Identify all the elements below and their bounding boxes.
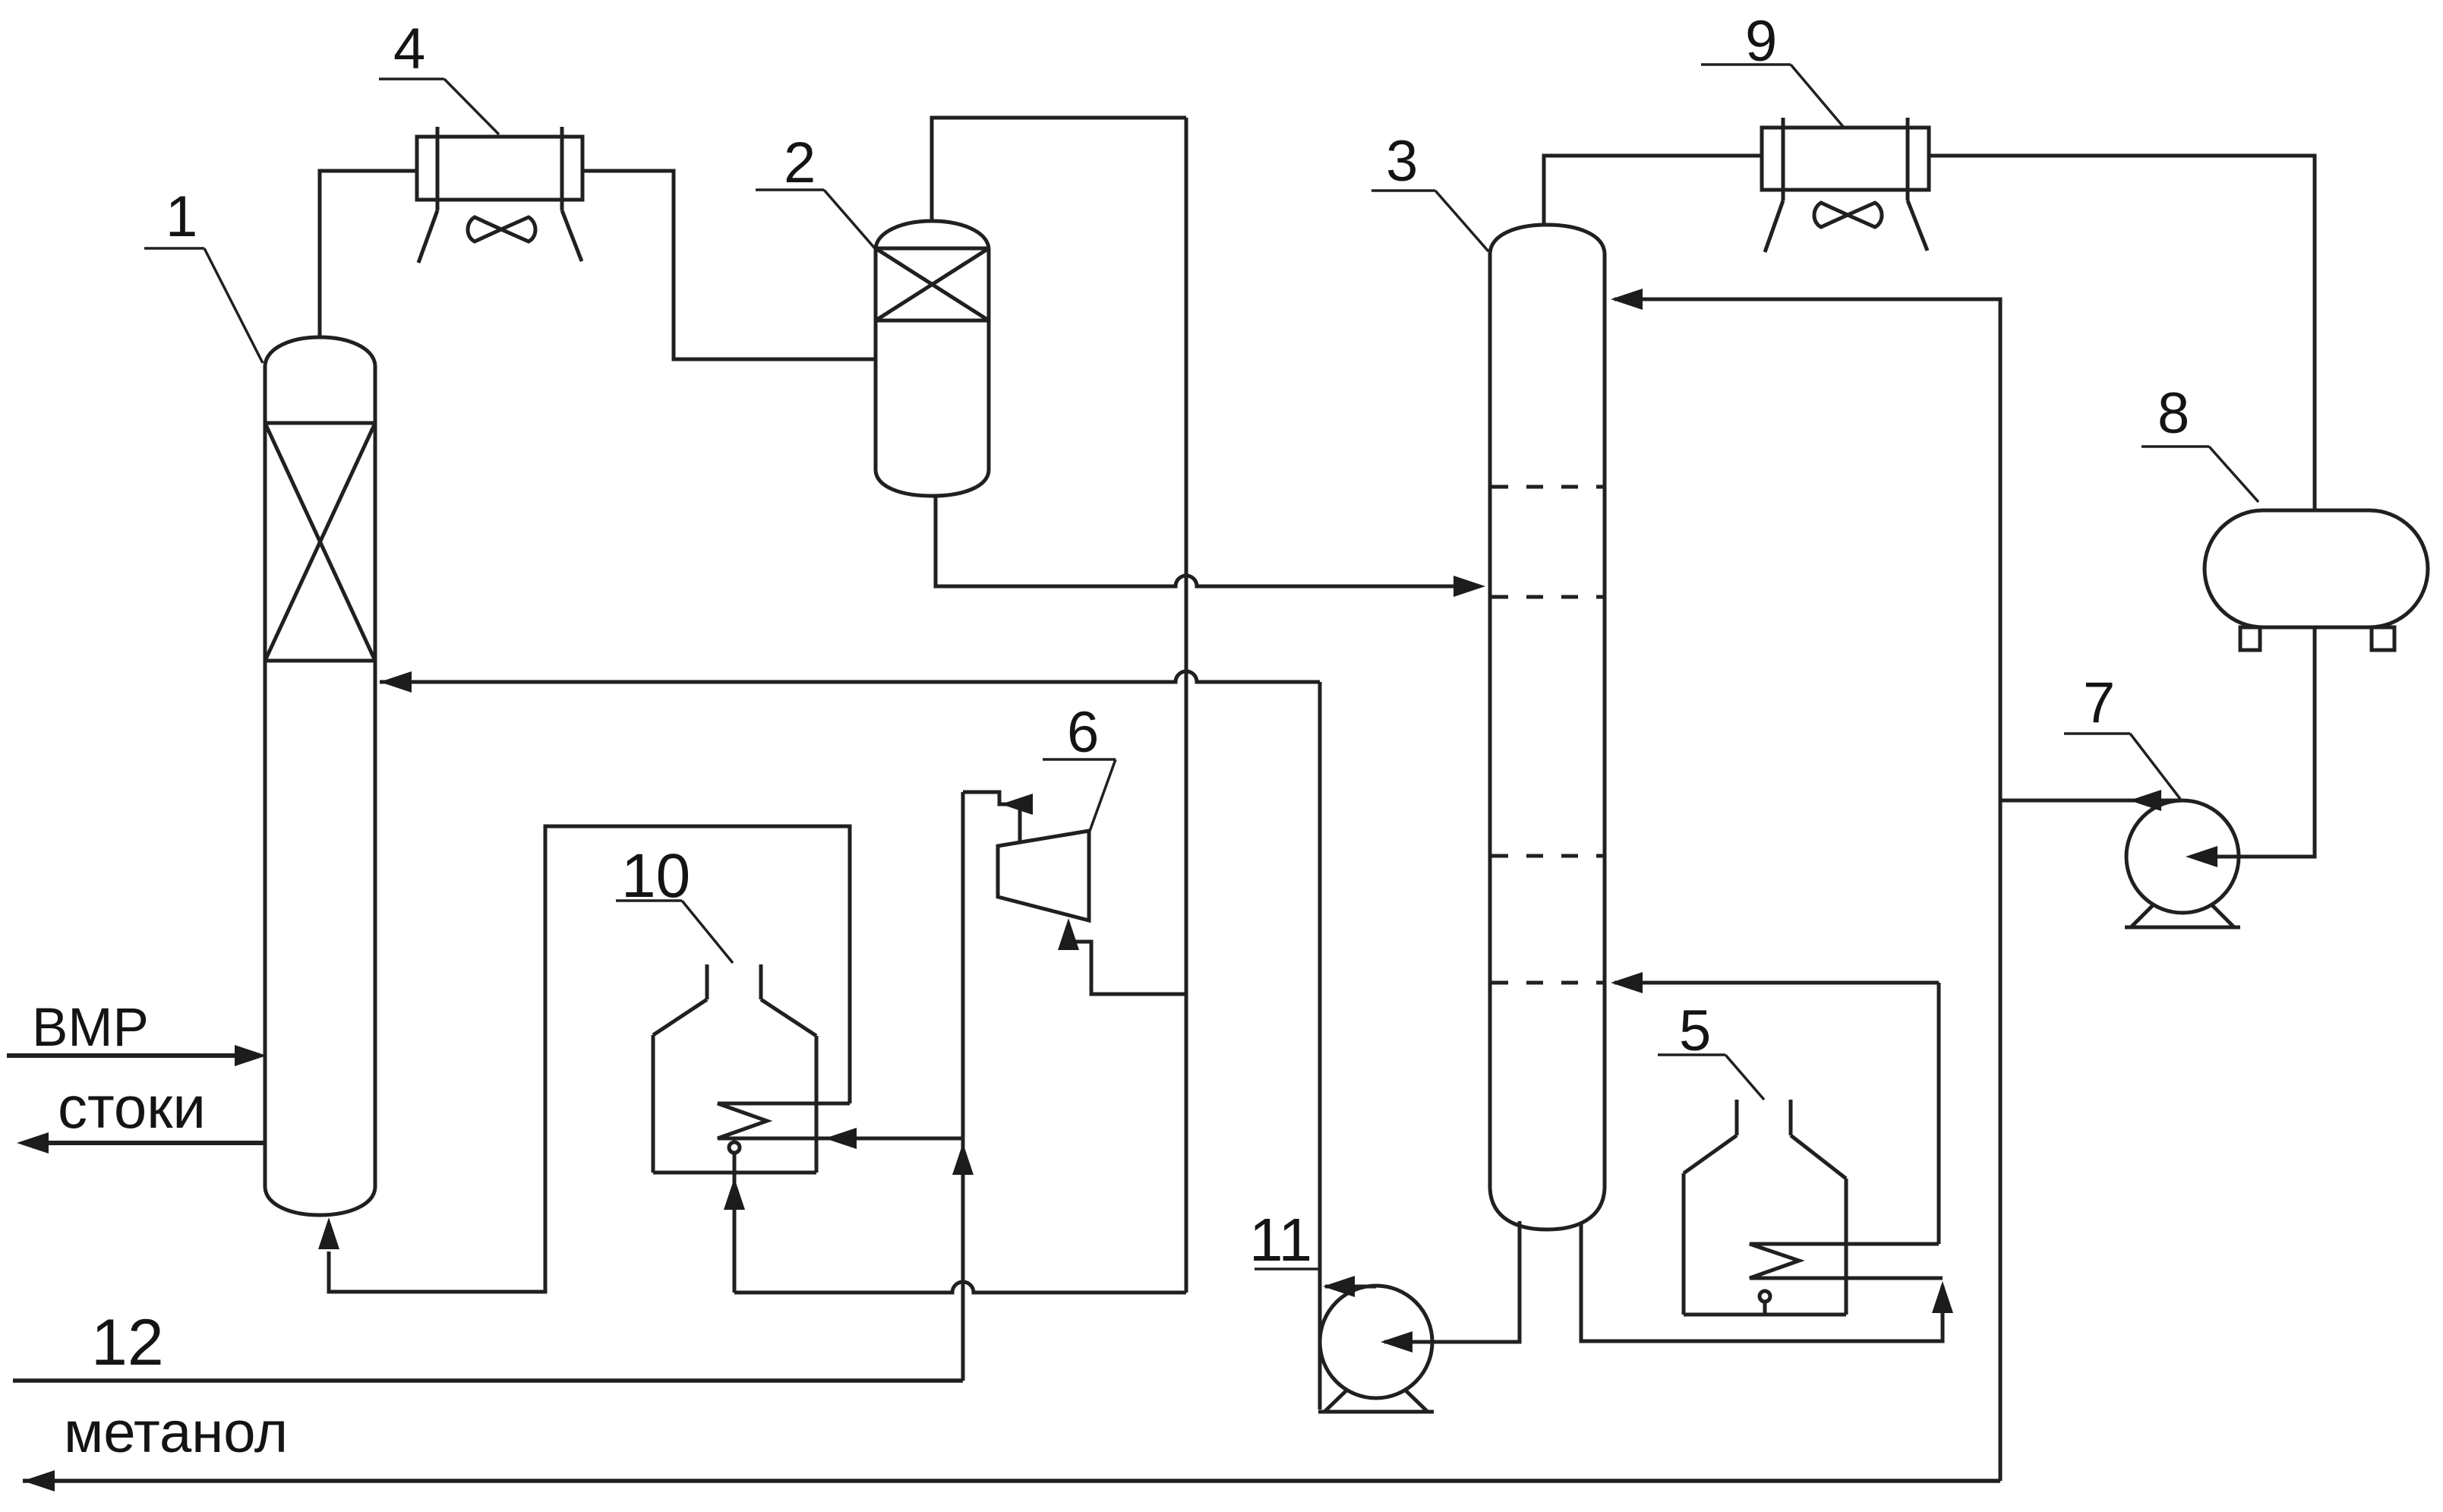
svg-text:12: 12 bbox=[91, 1306, 164, 1379]
svg-text:4: 4 bbox=[393, 17, 425, 81]
svg-text:метанол: метанол bbox=[64, 1400, 288, 1465]
svg-text:11: 11 bbox=[1249, 1206, 1312, 1274]
svg-text:10: 10 bbox=[621, 841, 690, 911]
svg-text:7: 7 bbox=[2083, 671, 2115, 735]
svg-text:3: 3 bbox=[1386, 129, 1418, 194]
svg-text:9: 9 bbox=[1745, 9, 1777, 74]
svg-text:1: 1 bbox=[166, 185, 197, 249]
svg-text:5: 5 bbox=[1679, 999, 1711, 1063]
svg-text:ВМР: ВМР bbox=[32, 998, 149, 1058]
svg-text:2: 2 bbox=[784, 131, 816, 195]
svg-text:стоки: стоки bbox=[58, 1074, 206, 1141]
svg-text:8: 8 bbox=[2157, 381, 2189, 446]
svg-text:6: 6 bbox=[1067, 700, 1099, 765]
